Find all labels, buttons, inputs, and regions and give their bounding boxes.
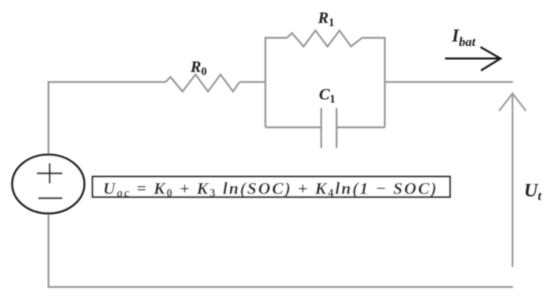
capacitor C1	[321, 108, 336, 148]
wire: bottom branch C1 to right edge	[337, 126, 385, 128]
wire: bottom horizontal	[48, 286, 513, 288]
wire: top branch R1 to right edge	[362, 37, 386, 39]
polarity plus	[37, 163, 63, 183]
voltage source Uoc (ellipse)	[12, 155, 84, 214]
svg-text:Uoc = K0 + K3 ln(SOC) + K4ln(1: Uoc = K0 + K3 ln(SOC) + K4ln(1 − SOC)	[103, 179, 438, 200]
wire: top branch lead-in to R1	[265, 37, 288, 39]
resistor R0	[166, 75, 240, 92]
wire: left vertical (source branch)	[48, 82, 50, 287]
resistor R1	[287, 31, 362, 47]
equation box	[93, 177, 451, 197]
polarity minus	[38, 197, 62, 199]
wire: top left horizontal	[48, 81, 166, 83]
wire: bottom branch left lead to C1	[265, 126, 321, 128]
arrow Ibat (current direction)	[445, 47, 501, 71]
node: RC left junction (left edge of parallel loop)	[264, 38, 266, 128]
arrow Ut (terminal voltage arrow)	[499, 94, 526, 268]
wire: RC group to output terminal	[385, 81, 513, 83]
node: RC right junction (right edge of parallel loop)	[384, 38, 386, 128]
wire: R0 to RC group	[240, 81, 267, 83]
